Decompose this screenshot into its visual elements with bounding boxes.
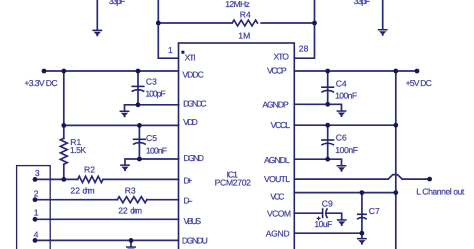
svg-text:D–: D–: [184, 196, 193, 206]
svg-text:D+: D+: [184, 176, 193, 186]
svg-text:R4: R4: [240, 9, 251, 19]
svg-text:3: 3: [35, 168, 40, 178]
svg-text:C5: C5: [146, 133, 157, 143]
svg-text:1.5K: 1.5K: [70, 145, 86, 155]
svg-text:VDD: VDD: [183, 117, 198, 127]
svg-text:28: 28: [299, 43, 309, 53]
svg-text:AGNDL: AGNDL: [264, 155, 290, 165]
svg-text:C7: C7: [369, 206, 380, 216]
svg-text:33pF: 33pF: [109, 0, 126, 6]
svg-text:ohm: ohm: [82, 185, 94, 195]
svg-text:PCM2702: PCM2702: [215, 178, 252, 188]
svg-text:1: 1: [168, 45, 173, 55]
svg-text:AGND: AGND: [266, 228, 290, 238]
svg-text:+3.3V DC: +3.3V DC: [24, 78, 57, 88]
svg-text:4: 4: [34, 229, 39, 239]
svg-text:VCCL: VCCL: [271, 120, 291, 130]
svg-text:VCCP: VCCP: [267, 65, 287, 75]
svg-text:C4: C4: [336, 78, 347, 88]
svg-text:VDDC: VDDC: [182, 70, 203, 80]
svg-text:+5V DC: +5V DC: [406, 78, 432, 88]
svg-text:C6: C6: [336, 132, 347, 142]
svg-text:VOUTL: VOUTL: [264, 174, 290, 184]
svg-text:L Channel out: L Channel out: [416, 187, 465, 197]
svg-text:10uF: 10uF: [314, 219, 332, 229]
svg-text:R3: R3: [125, 185, 136, 195]
svg-text:ohm: ohm: [130, 206, 142, 216]
svg-text:XTO: XTO: [274, 52, 290, 62]
svg-text:DGNDC: DGNDC: [183, 98, 207, 108]
svg-text:100nF: 100nF: [335, 91, 357, 101]
svg-text:DGND: DGND: [184, 153, 205, 163]
svg-text:VCC: VCC: [270, 192, 284, 202]
svg-text:1M: 1M: [238, 30, 250, 40]
svg-text:100nF: 100nF: [146, 145, 167, 155]
svg-text:VCOM: VCOM: [267, 208, 291, 218]
svg-text:2: 2: [34, 188, 39, 198]
svg-text:XTI: XTI: [185, 53, 196, 63]
svg-text:22: 22: [118, 206, 128, 216]
svg-text:22: 22: [70, 185, 80, 195]
svg-text:C3: C3: [146, 77, 157, 87]
svg-text:C9: C9: [322, 198, 333, 208]
svg-text:DGNDU: DGNDU: [182, 235, 208, 245]
svg-text:12MHz: 12MHz: [225, 0, 250, 9]
svg-text:1: 1: [34, 208, 39, 218]
svg-text:100nF: 100nF: [335, 145, 358, 155]
svg-text:100pF: 100pF: [145, 89, 165, 99]
svg-text:AGNDP: AGNDP: [262, 99, 289, 109]
svg-text:R2: R2: [84, 165, 95, 175]
svg-text:33pF: 33pF: [354, 0, 371, 6]
svg-text:VBUS: VBUS: [184, 216, 202, 226]
